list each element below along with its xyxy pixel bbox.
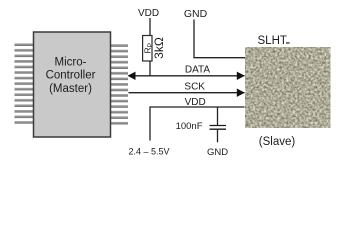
svg-text:Controller: Controller [46,70,96,82]
wire GND vertical drop [194,20,245,58]
svg-text:VDD: VDD [185,97,206,108]
svg-text:GND: GND [184,8,208,20]
svg-text:(Master): (Master) [49,83,92,95]
SCK arrowhead right (into slave) [237,89,245,97]
svg-text:SCK: SCK [184,82,205,93]
capacitor C1 bottom plate [210,128,227,130]
DATA wire [129,75,245,77]
sensor SLHT body (slave) [245,47,331,128]
svg-text:VDD: VDD [138,8,159,19]
microcontroller U1 body [34,32,111,137]
microcontroller U1 label Micro-Controller (Master) [46,57,96,96]
microcontroller U1 left pins [15,43,34,123]
resistor RP body [143,36,152,62]
wire capacitor C1 to GND [217,130,219,143]
wire VDD label to resistor RP [149,18,151,36]
svg-text:100nF: 100nF [176,121,203,132]
microcontroller U1 right pins [111,44,128,124]
svg-text:2.4 – 5.5V: 2.4 – 5.5V [128,147,169,157]
svg-text:(Slave): (Slave) [259,136,296,148]
svg-text:Micro-: Micro- [55,57,87,69]
svg-text:SLHT: SLHT [258,35,287,47]
sensor label subscript mark [286,42,290,43]
capacitor C1 top plate [210,125,227,127]
DATA arrowhead right (into slave) [237,72,245,80]
wire resistor RP to DATA node [149,61,151,76]
svg-text:GND: GND [207,147,228,158]
svg-text:3kΩ: 3kΩ [152,37,166,59]
SCK wire [129,92,245,94]
VDD wire to slave with corner down to supply [150,107,245,141]
svg-text:DATA: DATA [185,64,211,75]
wire VDD node to capacitor C1 [217,107,219,125]
DATA arrowhead left (into master) [128,72,136,80]
